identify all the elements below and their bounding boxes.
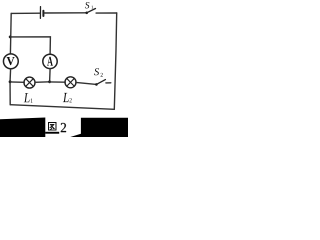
wire right side xyxy=(114,13,116,109)
label S2 xyxy=(94,68,103,76)
battery cell xyxy=(40,7,43,19)
caption black strip bottom xyxy=(45,132,59,134)
ammeter lead wire xyxy=(49,69,52,82)
voltmeter V xyxy=(3,54,18,69)
lamp L2 xyxy=(65,77,76,88)
wire left side upper xyxy=(9,13,12,54)
lamp L1 xyxy=(24,77,35,88)
wire L2 to switch S2 xyxy=(76,82,97,84)
junction node (ammeter / lamp row) xyxy=(48,80,51,83)
wire L1 to ammeter junction xyxy=(35,81,50,84)
wire junction to lamp L2 xyxy=(50,81,66,83)
ammeter A xyxy=(43,54,57,68)
wire middle branch to ammeter xyxy=(10,37,50,54)
caption black bar left xyxy=(0,118,45,138)
switch S2 xyxy=(95,80,111,86)
wire top-left segment xyxy=(11,12,40,14)
label L2 xyxy=(63,93,72,102)
caption black bar right xyxy=(70,118,128,137)
label L1 xyxy=(24,93,33,103)
label S1 xyxy=(85,2,93,9)
wire left side lower xyxy=(9,69,12,105)
junction node (left / voltmeter branch) xyxy=(9,36,12,39)
junction node (left / lamp row) xyxy=(9,80,12,83)
switch S1 xyxy=(85,9,116,15)
wire bottom xyxy=(10,105,114,110)
wire battery to switch S1 xyxy=(44,12,86,14)
caption text 2 xyxy=(61,123,66,132)
wire junction to lamp L1 xyxy=(10,81,24,83)
caption character 图 xyxy=(49,123,57,131)
